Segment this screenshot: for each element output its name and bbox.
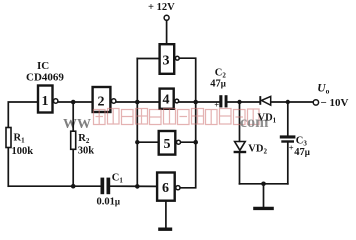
svg-text:100k: 100k xyxy=(12,146,34,157)
svg-text:− 10V: − 10V xyxy=(321,97,349,109)
svg-text:VD1: VD1 xyxy=(258,113,277,125)
svg-text:WW: WW xyxy=(63,117,91,132)
svg-text:3: 3 xyxy=(163,54,170,69)
svg-text:+: + xyxy=(289,142,294,152)
svg-text:VD2: VD2 xyxy=(248,143,267,155)
svg-text:0.01μ: 0.01μ xyxy=(97,197,120,208)
svg-text:30k: 30k xyxy=(78,145,95,156)
svg-text:C1: C1 xyxy=(112,173,124,185)
svg-text:Uo: Uo xyxy=(317,83,329,96)
svg-text:R2: R2 xyxy=(78,133,90,145)
svg-text:+ 12V: + 12V xyxy=(148,2,175,13)
svg-text:1: 1 xyxy=(42,94,49,109)
svg-text:47μ: 47μ xyxy=(210,79,226,90)
svg-text:2: 2 xyxy=(98,95,105,110)
svg-text:IC: IC xyxy=(37,60,49,72)
svg-text:6: 6 xyxy=(162,181,169,196)
svg-text:R1: R1 xyxy=(14,133,26,145)
svg-text:C2: C2 xyxy=(215,67,227,79)
svg-text:5: 5 xyxy=(164,137,171,152)
svg-text:4: 4 xyxy=(163,93,170,108)
svg-text:+: + xyxy=(214,100,219,110)
svg-text:CD4069: CD4069 xyxy=(26,72,64,84)
svg-text:47μ: 47μ xyxy=(294,147,310,158)
svg-text:C3: C3 xyxy=(296,135,308,147)
